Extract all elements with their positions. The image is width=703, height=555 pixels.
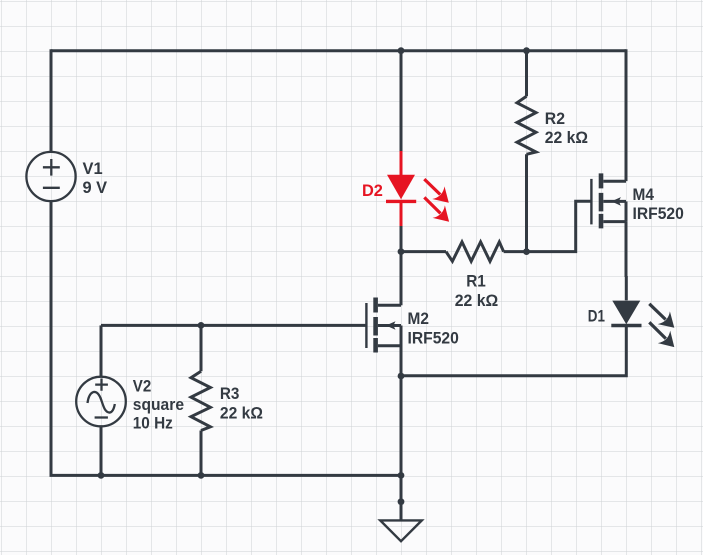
junction: gate row / R3 top xyxy=(198,322,205,329)
svg-text:9 V: 9 V xyxy=(83,178,108,197)
svg-text:IRF520: IRF520 xyxy=(408,328,459,347)
junction: bottom rail / ground column xyxy=(398,472,405,479)
svg-text:D2: D2 xyxy=(362,181,383,200)
resistor R1 xyxy=(401,242,527,261)
junction: D2 cathode / R1 / M2 drain xyxy=(398,248,405,255)
ground symbol xyxy=(380,502,422,542)
wire: gate row from V2 column to M2 gate xyxy=(101,324,366,327)
wire: main column M2 drain lead xyxy=(400,250,403,305)
wire: main column D2 cathode to R1 node xyxy=(400,225,403,252)
svg-text:V1: V1 xyxy=(83,159,103,178)
wire: R1 node to M4 gate (right, then up) xyxy=(527,201,591,251)
junction: R1 / R2 / M4 gate xyxy=(523,248,530,255)
wire: ground stub xyxy=(400,475,403,501)
svg-text:22 kΩ: 22 kΩ xyxy=(220,404,263,423)
MOSFET M4 (IRF520) xyxy=(591,173,626,228)
junction: top rail / R2 column xyxy=(523,47,530,54)
junction: top rail / D2 column xyxy=(398,47,405,54)
MOSFET M2 (IRF520) xyxy=(366,298,401,353)
MOSFET M2 body arrow xyxy=(386,321,396,330)
wire: D1 return to M2 source node xyxy=(401,351,626,376)
svg-text:22 kΩ: 22 kΩ xyxy=(455,291,499,310)
resistor R2 xyxy=(517,96,536,251)
junction: bottom rail / V2 xyxy=(98,472,105,479)
wire: R2 top lead from top rail xyxy=(525,49,528,96)
svg-text:10 Hz: 10 Hz xyxy=(133,414,173,433)
wire: top rail from V1 to top-right corner xyxy=(51,49,626,52)
voltage source V2 (function generator) xyxy=(76,377,126,427)
junction: M2 source / D1 return xyxy=(398,373,405,380)
LED D2 (red) xyxy=(386,151,449,226)
wire: right rail top to M4 drain xyxy=(625,49,628,181)
resistor R3 xyxy=(191,325,210,477)
svg-text:V2: V2 xyxy=(133,376,152,395)
svg-text:22 kΩ: 22 kΩ xyxy=(545,128,588,147)
svg-text:R1: R1 xyxy=(466,272,486,291)
wire: left rail V1 upper lead xyxy=(50,49,53,152)
wire: main column M2 source down to bottom rail xyxy=(400,345,403,477)
svg-text:R2: R2 xyxy=(545,109,565,128)
wire: V2 top lead up to gate row xyxy=(100,325,103,377)
wire: bottom rail to ground column xyxy=(50,474,402,477)
wire: left rail V1 lower lead down to bottom rail xyxy=(50,201,53,476)
svg-text:M4: M4 xyxy=(633,185,655,204)
svg-text:M2: M2 xyxy=(408,309,429,328)
LED D1 xyxy=(611,276,674,351)
svg-text:R3: R3 xyxy=(220,384,240,403)
svg-text:D1: D1 xyxy=(588,306,605,325)
wire: V2 bottom lead xyxy=(100,426,103,477)
svg-text:square: square xyxy=(133,395,184,414)
junction: ground terminal node xyxy=(398,498,405,505)
junction: bottom rail / R3 xyxy=(198,472,205,479)
voltage source V1 xyxy=(26,152,75,201)
wire: main column upper (top rail to LED D2) xyxy=(400,49,403,152)
wire: right rail M4 source to LED D1 xyxy=(625,222,628,277)
svg-text:IRF520: IRF520 xyxy=(633,204,684,223)
MOSFET M4 body arrow xyxy=(611,197,621,206)
